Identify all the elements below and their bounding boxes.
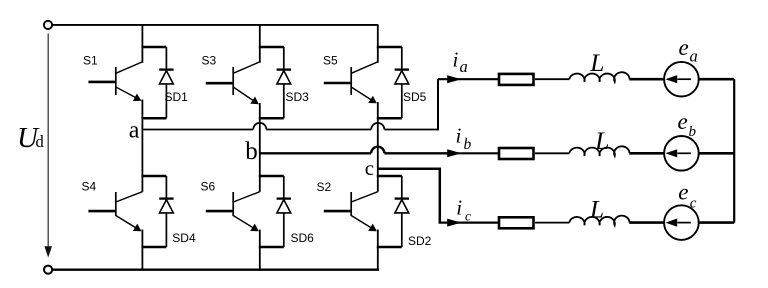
svg-text:SD1: SD1 [165, 90, 189, 104]
wire inductor-source c [629, 221, 664, 224]
diode SD1 [159, 47, 173, 118]
svg-text:d: d [36, 132, 45, 151]
svg-text:S1: S1 [83, 54, 98, 68]
svg-text:L: L [594, 126, 609, 155]
label L (b) [594, 126, 609, 155]
wire inductor-source a [629, 78, 664, 81]
svg-text:c: c [690, 195, 697, 211]
svg-text:S2: S2 [317, 180, 332, 194]
svg-text:b: b [689, 124, 697, 140]
label S6 [201, 179, 216, 193]
source e_a [664, 62, 699, 97]
wire S1 collector-diode tie [141, 46, 166, 49]
wire leg1 middle [141, 100, 143, 192]
svg-text:c: c [465, 209, 471, 224]
wire leg1 bottom [141, 230, 143, 270]
wire i_c arrow [439, 219, 500, 227]
svg-text:SD6: SD6 [291, 231, 315, 245]
node b [245, 138, 257, 165]
transistor S2 [324, 192, 378, 232]
wire node c to phase c [378, 168, 441, 223]
svg-text:SD4: SD4 [172, 231, 196, 245]
diode SD4 [159, 176, 173, 247]
wire S3 collector-diode tie [259, 46, 284, 49]
resistor Ra [499, 74, 534, 85]
node c [365, 156, 374, 180]
wire leg2 middle [259, 103, 261, 192]
wire source-neutral c [699, 221, 735, 224]
wire S4 emitter-diode tie [141, 246, 166, 249]
wire inductor-source b [629, 152, 664, 155]
diode SD2 [395, 176, 409, 247]
wire top DC rail [52, 24, 378, 26]
wire S2 emitter-diode tie [377, 246, 402, 249]
resistor Rc [499, 217, 534, 228]
wire S4 collector-diode tie [141, 175, 166, 178]
wire leg3 top [377, 25, 379, 63]
svg-text:b: b [464, 136, 472, 153]
svg-text:S5: S5 [323, 54, 338, 68]
svg-text:SD5: SD5 [403, 90, 427, 104]
svg-text:b: b [245, 138, 257, 165]
wire S6 collector-diode tie [259, 175, 284, 178]
label SD6 [291, 231, 315, 245]
label e_c [678, 179, 697, 211]
label S1 [83, 54, 98, 68]
label i_c [456, 195, 471, 223]
wire source-neutral a [699, 78, 735, 81]
label S4 [82, 179, 97, 193]
svg-text:e: e [679, 35, 689, 60]
wire S3 emitter-diode tie [259, 117, 284, 120]
transistor S6 [206, 192, 260, 232]
diode SD5 [395, 47, 409, 118]
label L (a) [589, 48, 604, 77]
svg-text:SD2: SD2 [408, 234, 432, 248]
wire resistor-inductor c [535, 222, 569, 224]
label i_a [453, 48, 468, 77]
label S3 [202, 54, 217, 68]
label SD5 [403, 90, 427, 104]
svg-text:i: i [456, 123, 462, 147]
wire S2 collector-diode tie [377, 175, 402, 178]
label SD1 [165, 90, 189, 104]
source e_b [664, 136, 699, 171]
label i_b [456, 123, 472, 153]
wire S1 emitter-diode tie [141, 117, 166, 120]
wire leg1 top [141, 25, 143, 63]
svg-text:L: L [589, 194, 604, 223]
svg-text:S4: S4 [82, 179, 97, 193]
inductor L (b) [569, 146, 629, 156]
wire leg3 bottom [377, 230, 379, 270]
label Ud [17, 122, 45, 154]
label S2 [317, 180, 332, 194]
wire leg2 bottom [259, 230, 261, 270]
label e_a [679, 35, 698, 65]
label SD3 [286, 90, 310, 104]
label e_b [678, 109, 697, 140]
transistor S5 [324, 62, 378, 104]
node a [129, 118, 140, 144]
wire node b to phase b (with crossover) [260, 147, 448, 154]
svg-text:SD3: SD3 [286, 90, 310, 104]
wire bottom DC rail [52, 269, 379, 271]
terminal + (top left) [44, 21, 52, 29]
svg-text:c: c [365, 156, 374, 180]
wire leg2 top [259, 25, 261, 63]
svg-text:a: a [460, 57, 468, 76]
label L (c) [589, 194, 604, 223]
svg-text:e: e [678, 109, 688, 134]
wire leg3 middle [377, 102, 379, 192]
transistor S4 [88, 192, 142, 232]
svg-text:i: i [456, 195, 462, 219]
label SD4 [172, 231, 196, 245]
diode SD6 [277, 176, 291, 247]
Ud arrow line [44, 34, 52, 258]
wire S6 emitter-diode tie [259, 246, 284, 249]
svg-text:a: a [690, 46, 698, 65]
transistor S3 [206, 62, 260, 104]
transistor S1 [88, 62, 142, 101]
svg-text:e: e [678, 179, 688, 204]
terminal - (bottom left) [44, 266, 52, 274]
wire i_b arrow [447, 149, 500, 157]
wire S5 emitter-diode tie [377, 117, 402, 120]
wire i_a arrow [438, 75, 500, 83]
inductor L (a) [569, 72, 629, 82]
inductor L (c) [569, 216, 629, 226]
wire neutral vertical [733, 79, 735, 222]
svg-text:S6: S6 [201, 179, 216, 193]
svg-text:S3: S3 [202, 54, 217, 68]
label SD2 [408, 234, 432, 248]
svg-text:L: L [589, 48, 604, 77]
wire node a to phase a (with crossovers) [142, 79, 438, 130]
source e_c [664, 205, 699, 240]
svg-text:i: i [453, 48, 459, 72]
svg-text:a: a [129, 118, 140, 144]
resistor Rb [499, 148, 534, 159]
wire resistor-inductor b [535, 152, 569, 154]
wire resistor-inductor a [535, 78, 569, 80]
diode SD3 [277, 47, 291, 118]
wire S5 collector-diode tie [377, 46, 402, 49]
wire source-neutral b [699, 152, 735, 155]
label S5 [323, 54, 338, 68]
